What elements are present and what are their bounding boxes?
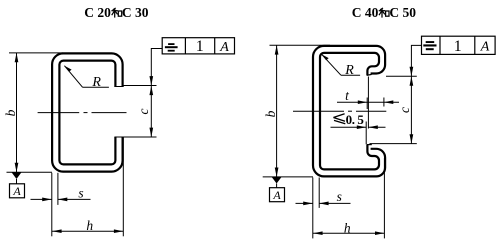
centerline left	[38, 112, 127, 114]
svg-text:c: c	[397, 107, 412, 113]
title C 40 and C 50	[352, 5, 416, 20]
radius leader R right	[322, 54, 361, 78]
dimension s right	[296, 178, 351, 239]
profile C40/C50 lip end caps	[367, 74, 372, 75]
tolerance frame left	[162, 38, 234, 56]
profile C40/C50 inner contour	[320, 53, 379, 169]
radius leader R left	[64, 66, 109, 90]
svg-text:s: s	[78, 185, 83, 200]
profile C20/C30 lip end caps	[114, 86, 123, 88]
profile C20/C30 inner contour	[59, 61, 115, 165]
svg-text:C 20: C 20	[84, 5, 111, 20]
datum A left	[7, 172, 53, 198]
tolerance frame leader right	[410, 45, 422, 76]
svg-text:h: h	[86, 218, 93, 233]
dimension c right	[370, 76, 417, 143]
svg-text:s: s	[337, 189, 342, 204]
svg-text:A: A	[12, 184, 21, 198]
svg-text:b: b	[3, 109, 18, 116]
profile C40/C50 outer contour	[313, 46, 385, 177]
dimension t right	[337, 88, 399, 109]
dimension le 0.5 right	[331, 77, 386, 145]
svg-text:A: A	[480, 40, 490, 55]
datum A right	[263, 177, 313, 202]
svg-text:c: c	[136, 109, 151, 115]
svg-text:A: A	[219, 40, 229, 55]
svg-text:R: R	[344, 63, 354, 78]
dimension s left	[31, 173, 91, 237]
svg-text:1: 1	[454, 38, 462, 55]
profile C20/C30 outer contour	[52, 53, 123, 171]
dimension c left	[123, 86, 157, 138]
svg-text:h: h	[344, 220, 351, 235]
centerline right	[293, 110, 386, 112]
svg-text:0. 5: 0. 5	[346, 112, 365, 127]
svg-text:b: b	[263, 110, 278, 117]
svg-text:C 30: C 30	[122, 5, 149, 20]
tolerance frame right	[422, 36, 496, 55]
svg-text:1: 1	[196, 38, 204, 55]
dimension h right	[313, 158, 384, 238]
dimension b left	[3, 53, 63, 172]
svg-text:C 50: C 50	[389, 5, 416, 20]
title C 20 and C 30	[84, 5, 148, 20]
tolerance frame leader left	[149, 49, 162, 86]
dimension h left	[52, 138, 123, 237]
svg-text:R: R	[91, 75, 101, 90]
svg-text:C 40: C 40	[352, 5, 379, 20]
dimension b right	[263, 45, 330, 177]
svg-text:A: A	[272, 188, 281, 202]
